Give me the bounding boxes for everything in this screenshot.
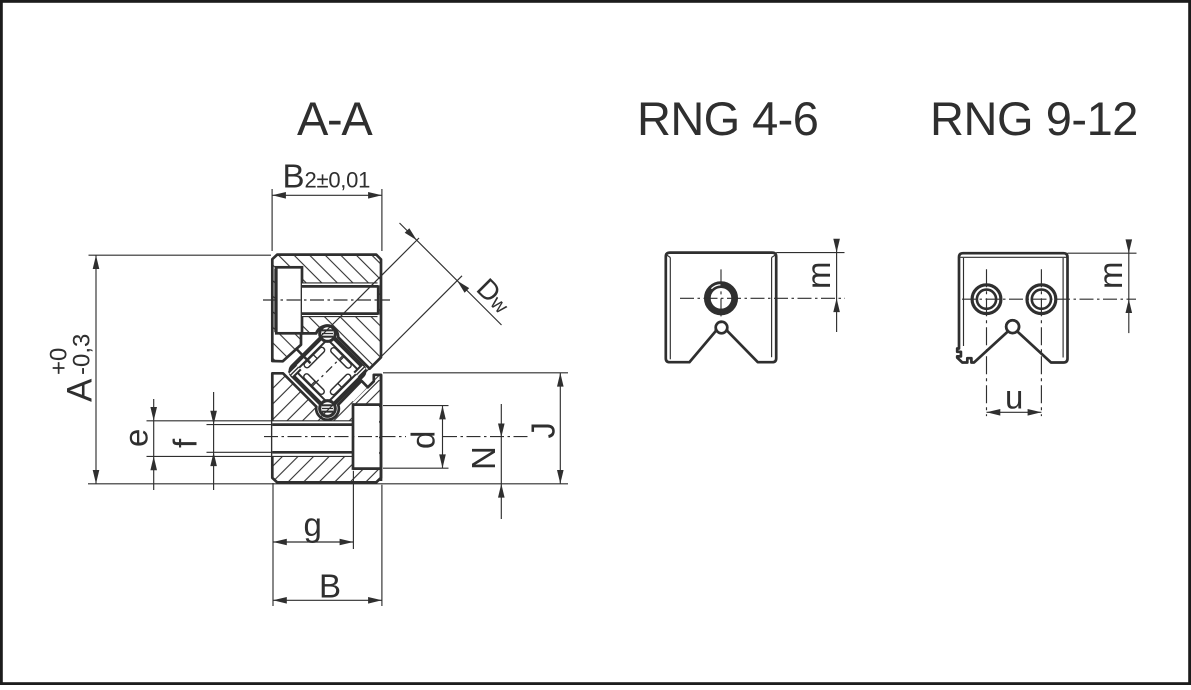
dimension e	[117, 399, 157, 490]
RNG 9-12 centerlines	[962, 269, 1136, 416]
RNG 4-6 V-groove apex relief	[716, 322, 728, 334]
svg-text:B: B	[319, 567, 341, 604]
dimension J	[383, 373, 568, 484]
dimension m (RNG 4-6)	[776, 239, 844, 332]
dimension u	[987, 379, 1042, 416]
svg-text:e: e	[117, 429, 154, 447]
svg-text:N: N	[465, 446, 502, 470]
dimension g	[273, 471, 353, 606]
dimension d	[383, 406, 449, 469]
roller axis line 2 (Dw extension)	[321, 276, 462, 417]
dimension A +0/-0,3	[46, 255, 271, 484]
centerline of top bore	[263, 299, 390, 301]
svg-text:A-A: A-A	[297, 92, 373, 145]
reference line bottom face	[88, 483, 568, 485]
svg-text:m: m	[800, 262, 837, 290]
svg-text:J: J	[525, 422, 562, 439]
RNG 9-12 body outline	[957, 253, 1067, 362]
dimension B2 plus-minus 0,01	[272, 158, 382, 252]
bottom counterbore (right face)	[353, 375, 381, 481]
RNG 9-12 V-groove apex relief	[1006, 320, 1019, 333]
RNG 9-12 left hole	[972, 285, 1001, 314]
bottom threaded bore	[147, 421, 354, 457]
RNG 4-6 centerlines	[680, 269, 845, 327]
roller axis line 1 (Dw extension)	[311, 238, 419, 346]
RNG 4-6 body outline	[666, 253, 776, 363]
title RNG 4-6	[637, 92, 818, 145]
RNG 9-12 chamfer lines	[960, 257, 1067, 357]
guide block lower half (hatched section)	[272, 373, 381, 482]
dimension m (RNG 9-12)	[1068, 239, 1137, 333]
svg-text:m: m	[1092, 262, 1129, 290]
section title A-A	[297, 92, 373, 145]
dimension Dw	[400, 223, 518, 325]
RNG 4-6 chamfer lines	[667, 255, 775, 359]
svg-text:u: u	[1005, 379, 1023, 416]
svg-text:g: g	[304, 506, 322, 543]
svg-text:-0,3: -0,3	[69, 334, 96, 375]
RNG 9-12 right hole	[1027, 285, 1056, 314]
title RNG 9-12	[930, 92, 1138, 145]
centerline of bottom bore	[264, 436, 529, 438]
svg-text:A: A	[61, 378, 100, 402]
svg-text:RNG 9-12: RNG 9-12	[930, 92, 1138, 145]
top screw-head counterbore	[275, 267, 302, 333]
top threaded bore M..	[302, 283, 378, 317]
guide block upper half (hatched section)	[272, 255, 381, 369]
svg-text:RNG 4-6: RNG 4-6	[637, 92, 818, 145]
needle roller assembly at 45 deg	[279, 322, 376, 419]
dimension B	[273, 485, 382, 606]
svg-text:f: f	[167, 438, 204, 448]
dimension N	[465, 404, 505, 519]
dimension f	[167, 392, 217, 490]
pocket chamfer edge at joint notch	[296, 348, 311, 363]
RNG 4-6 threaded hole	[705, 283, 736, 314]
svg-text:d: d	[405, 431, 442, 449]
